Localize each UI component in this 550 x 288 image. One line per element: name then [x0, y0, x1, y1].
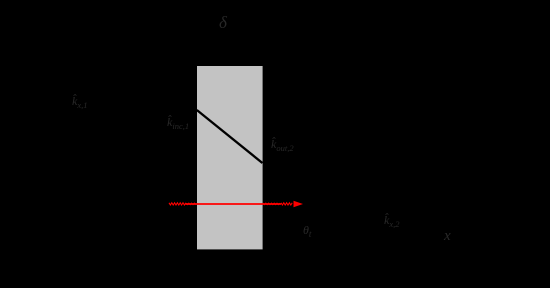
wave arrow: baseline after slab — [264, 203, 281, 205]
svg-text:x: x — [443, 228, 451, 244]
wave arrow: damped zigzag before slab — [186, 203, 196, 204]
svg-text:δ: δ — [219, 13, 228, 32]
wave arrow: arrowhead — [294, 201, 304, 208]
slab (gray dielectric layer) — [197, 66, 263, 249]
wave arrow: incoming zigzag segment — [169, 203, 186, 205]
refracted ray (diagonal line inside slab) — [197, 110, 263, 163]
wave arrow: straight line through slab — [186, 203, 265, 205]
wave arrow: damped zigzag after slab — [263, 203, 280, 204]
wave arrow: outgoing zigzag segment — [281, 203, 292, 205]
